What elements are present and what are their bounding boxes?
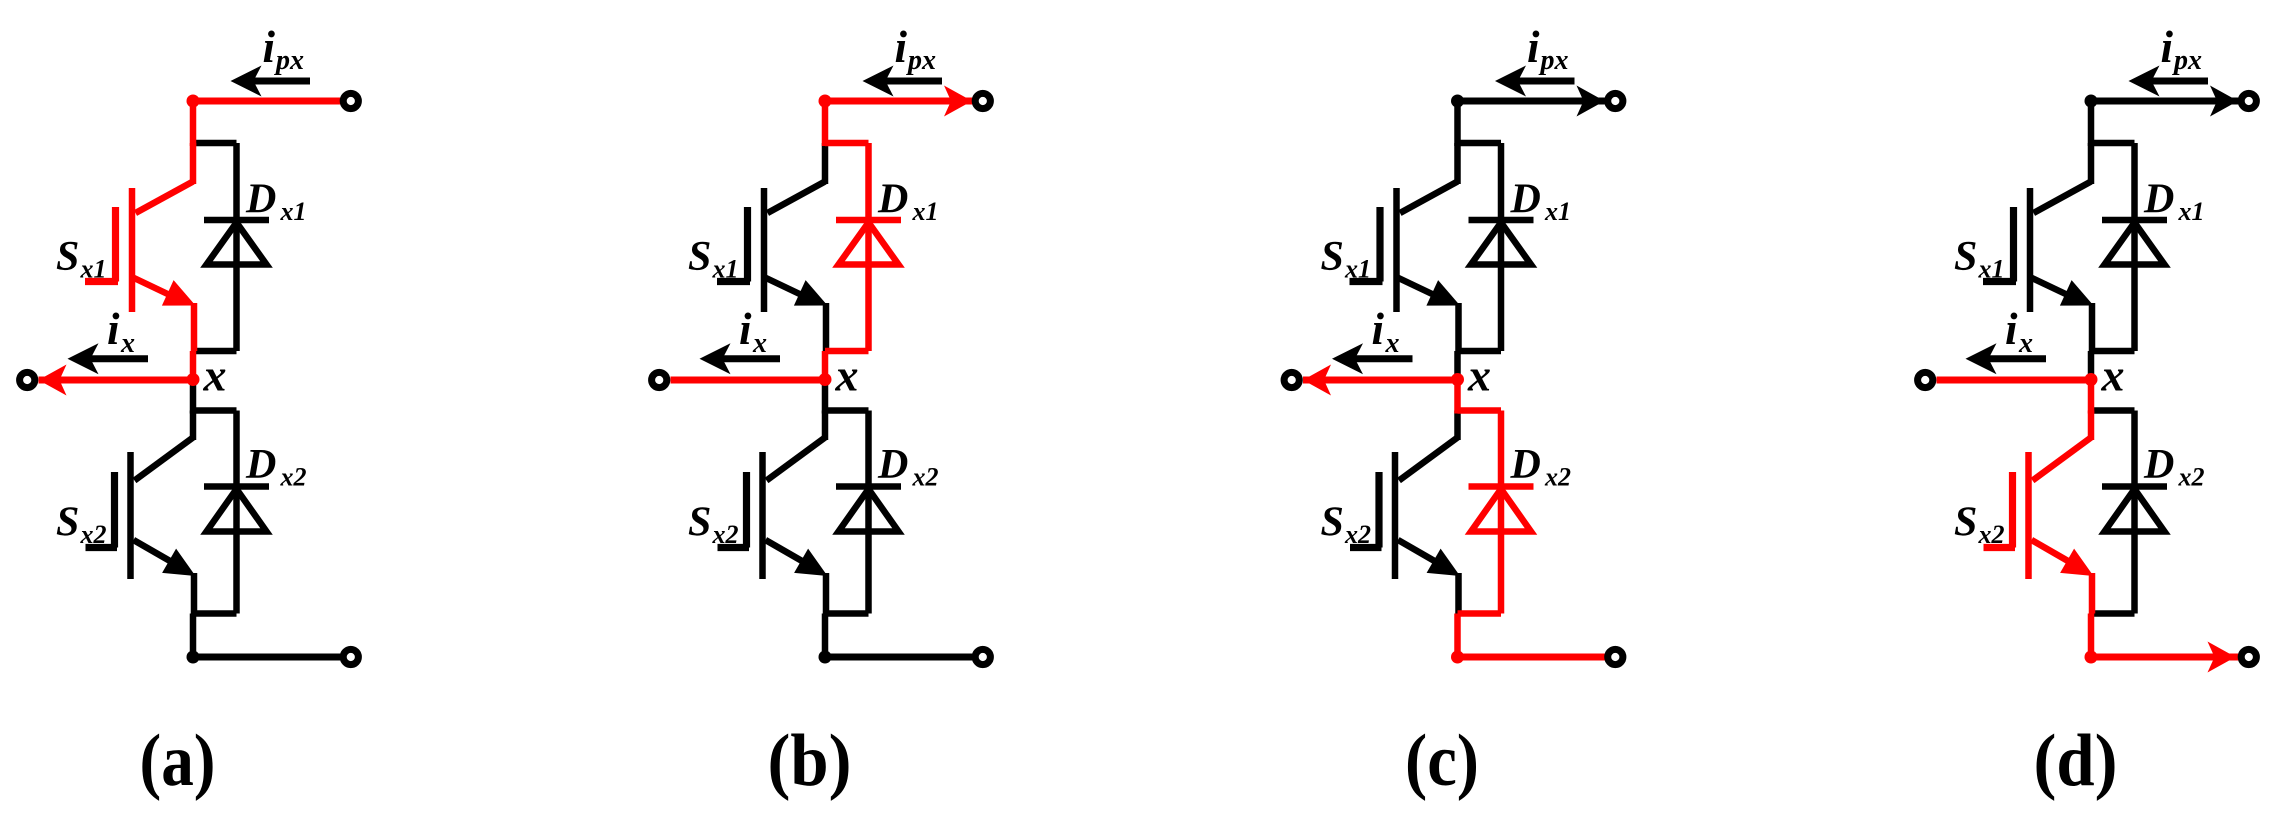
- svg-text:D: D: [2143, 442, 2174, 488]
- wire: emitter to D1 link: [1455, 303, 1462, 351]
- svg-text:x: x: [1385, 328, 1400, 359]
- svg-text:x: x: [752, 328, 767, 359]
- wire: to bottom junction: [2088, 614, 2095, 658]
- transistor S_x1: [136, 182, 194, 214]
- diode D_x1: [1498, 143, 1505, 351]
- wire: bottom output: [193, 654, 342, 661]
- junction: top rail: [2085, 95, 2098, 108]
- svg-text:(b): (b): [768, 720, 852, 802]
- wire: top output: [2091, 98, 2240, 105]
- wire: link to S2 collector: [190, 411, 197, 441]
- svg-text:i: i: [1527, 22, 1540, 72]
- arrowhead: current at top terminal: [2210, 86, 2238, 117]
- wire: rail top junction to diode top link: [190, 98, 197, 146]
- wire: D2 bottom link: [2091, 610, 2135, 617]
- svg-text:px: px: [1539, 45, 1569, 76]
- transistor S_x1: [768, 182, 826, 214]
- wire: D2 top link: [1458, 407, 1502, 414]
- wire: D1 top link: [1458, 140, 1502, 147]
- svg-text:(c): (c): [1405, 720, 1479, 802]
- svg-text:i: i: [2005, 304, 2018, 354]
- wire: bottom output: [825, 654, 974, 661]
- current arrow i_x: [90, 355, 148, 362]
- wire: D1 top link: [2091, 140, 2135, 147]
- svg-text:S: S: [1954, 500, 1977, 546]
- junction: bottom rail: [819, 651, 832, 664]
- terminal: phase x: [1284, 372, 1299, 387]
- wire: top output: [193, 98, 342, 105]
- transistor S_x2: [1399, 438, 1458, 481]
- diode D_x2: [233, 411, 240, 614]
- current arrow i_px: [884, 78, 942, 85]
- wire: S2 emitter to D2 link: [2089, 573, 2096, 614]
- arrowhead: current out at x terminal: [39, 365, 67, 396]
- wire: D2 top link: [193, 407, 237, 414]
- svg-text:D: D: [245, 442, 276, 488]
- svg-text:x1: x1: [912, 197, 939, 226]
- svg-text:(a): (a): [140, 720, 216, 802]
- junction: bottom rail: [1451, 651, 1464, 664]
- terminal: bottom (n rail): [343, 649, 358, 664]
- diode D_x1: [865, 143, 872, 351]
- arrowhead: current out at x terminal: [1303, 365, 1331, 396]
- wire: emitter to D1 link: [2089, 303, 2096, 351]
- half-bridge leg panel (c): [1284, 22, 1623, 802]
- svg-text:x2: x2: [1344, 520, 1371, 549]
- junction: bottom rail: [2085, 651, 2098, 664]
- wire: D2 top link: [825, 407, 869, 414]
- svg-text:D: D: [877, 177, 908, 223]
- wire: D2 bottom link: [825, 610, 869, 617]
- terminal: top (p rail): [1608, 93, 1623, 108]
- svg-text:i: i: [263, 22, 276, 72]
- wire: D1 bottom link: [825, 348, 869, 355]
- wire: link to S2 collector: [1454, 411, 1461, 441]
- wire: to bottom junction: [190, 614, 197, 658]
- terminal: bottom (n rail): [1608, 649, 1623, 664]
- svg-text:D: D: [877, 442, 908, 488]
- svg-text:x2: x2: [80, 520, 107, 549]
- svg-text:x1: x1: [80, 255, 107, 284]
- svg-text:S: S: [688, 234, 711, 280]
- diode D_x1: [2131, 143, 2138, 351]
- wire: rail top junction to diode top link: [822, 98, 829, 146]
- svg-text:x: x: [120, 328, 135, 359]
- wire: S2 emitter to D2 link: [1455, 573, 1462, 614]
- svg-text:x1: x1: [280, 197, 307, 226]
- terminal: top (p rail): [975, 93, 990, 108]
- current arrow i_x: [1355, 355, 1413, 362]
- wire: link to node x: [822, 351, 829, 380]
- node x junction: [819, 373, 832, 386]
- wire: D1 top link: [193, 140, 237, 147]
- terminal: phase x: [1918, 372, 1933, 387]
- svg-text:x1: x1: [2178, 197, 2205, 226]
- wire: D1 top link: [825, 140, 869, 147]
- wire: rail top junction to diode top link: [1454, 98, 1461, 146]
- diode D_x1: [233, 143, 240, 351]
- svg-text:px: px: [274, 45, 304, 76]
- wire: node x to D2 top link: [822, 380, 829, 414]
- terminal: phase x: [652, 372, 667, 387]
- svg-text:x1: x1: [1344, 255, 1371, 284]
- half-bridge leg panel (a): [20, 22, 359, 802]
- wire: S2 emitter to D2 link: [823, 573, 830, 614]
- svg-text:i: i: [739, 304, 752, 354]
- transistor S_x2: [767, 438, 826, 481]
- transistor S_x2: [2033, 438, 2092, 481]
- wire: D1 bottom link: [193, 348, 237, 355]
- wire: rail top junction to diode top link: [2088, 98, 2095, 146]
- svg-text:D: D: [1510, 442, 1541, 488]
- diode D_x2: [865, 411, 872, 614]
- svg-text:i: i: [2161, 22, 2174, 72]
- current arrow i_px: [2150, 78, 2208, 85]
- current arrow i_x: [722, 355, 780, 362]
- wire: link to node x: [1454, 351, 1461, 380]
- svg-text:x1: x1: [1544, 197, 1571, 226]
- wire: output x: [1937, 377, 2092, 384]
- wire: link to S2 collector: [822, 411, 829, 441]
- wire: bottom output: [1458, 654, 1607, 661]
- wire: rail to S collector: [2088, 143, 2095, 184]
- arrowhead: current at top terminal: [944, 86, 972, 117]
- svg-text:x1: x1: [1978, 255, 2005, 284]
- wire: output x: [39, 377, 194, 384]
- svg-text:x2: x2: [712, 520, 739, 549]
- wire: S2 emitter to D2 link: [191, 573, 198, 614]
- svg-text:x2: x2: [1978, 520, 2005, 549]
- svg-text:px: px: [906, 45, 936, 76]
- svg-text:x: x: [835, 350, 859, 401]
- wire: node x to D2 top link: [2088, 380, 2095, 414]
- svg-text:S: S: [688, 500, 711, 546]
- diode D_x2: [2131, 411, 2138, 614]
- junction: bottom rail: [187, 651, 200, 664]
- svg-text:D: D: [245, 177, 276, 223]
- wire: link to node x: [190, 351, 197, 380]
- svg-text:S: S: [1321, 234, 1344, 280]
- half-bridge leg panel (d): [1918, 22, 2257, 802]
- wire: D2 top link: [2091, 407, 2135, 414]
- wire: bottom output: [2091, 654, 2240, 661]
- arrowhead: current at bottom terminal: [2208, 642, 2236, 673]
- svg-text:D: D: [1510, 177, 1541, 223]
- wire: output x: [671, 377, 826, 384]
- node x junction: [2085, 373, 2098, 386]
- svg-text:x2: x2: [912, 463, 939, 492]
- svg-text:S: S: [1321, 500, 1344, 546]
- svg-text:x1: x1: [712, 255, 739, 284]
- current arrow i_px: [1517, 78, 1575, 85]
- current arrow i_x: [1988, 355, 2046, 362]
- terminal: bottom (n rail): [975, 649, 990, 664]
- terminal: bottom (n rail): [2241, 649, 2256, 664]
- svg-text:i: i: [1372, 304, 1385, 354]
- wire: output x: [1303, 377, 1458, 384]
- svg-text:D: D: [2143, 177, 2174, 223]
- svg-text:S: S: [1954, 234, 1977, 280]
- wire: rail to S collector: [190, 143, 197, 184]
- wire: D1 bottom link: [1458, 348, 1502, 355]
- diode D_x2: [1498, 411, 1505, 614]
- svg-text:x: x: [2101, 350, 2125, 401]
- wire: link to node x: [2088, 351, 2095, 380]
- svg-text:i: i: [895, 22, 908, 72]
- svg-text:x: x: [2018, 328, 2033, 359]
- wire: node x to D2 top link: [1454, 380, 1461, 414]
- wire: top output: [1458, 98, 1607, 105]
- wire: D1 bottom link: [2091, 348, 2135, 355]
- transistor S_x1: [1400, 182, 1458, 214]
- terminal: top (p rail): [2241, 93, 2256, 108]
- terminal: phase x: [20, 372, 35, 387]
- wire: to bottom junction: [822, 614, 829, 658]
- wire: D2 bottom link: [1458, 610, 1502, 617]
- svg-text:x2: x2: [2178, 463, 2205, 492]
- junction: top rail: [1451, 95, 1464, 108]
- wire: top output: [825, 98, 974, 105]
- svg-text:i: i: [107, 304, 120, 354]
- svg-text:S: S: [56, 500, 79, 546]
- node x junction: [1451, 373, 1464, 386]
- junction: top rail: [187, 95, 200, 108]
- wire: rail to S collector: [822, 143, 829, 184]
- svg-text:px: px: [2172, 45, 2202, 76]
- transistor S_x1: [2034, 182, 2092, 214]
- half-bridge leg panel (b): [652, 22, 991, 802]
- wire: emitter to D1 link: [191, 303, 198, 351]
- svg-text:x: x: [1467, 350, 1491, 401]
- wire: node x to D2 top link: [190, 380, 197, 414]
- junction: top rail: [819, 95, 832, 108]
- wire: emitter to D1 link: [823, 303, 830, 351]
- svg-text:x2: x2: [1544, 463, 1571, 492]
- wire: to bottom junction: [1454, 614, 1461, 658]
- arrowhead: current at top terminal: [1577, 86, 1605, 117]
- wire: link to S2 collector: [2088, 411, 2095, 441]
- node x junction: [187, 373, 200, 386]
- svg-text:S: S: [56, 234, 79, 280]
- wire: rail to S collector: [1454, 143, 1461, 184]
- svg-text:(d): (d): [2034, 720, 2118, 802]
- current arrow i_px: [252, 78, 310, 85]
- svg-text:x2: x2: [280, 463, 307, 492]
- transistor S_x2: [135, 438, 194, 481]
- terminal: top (p rail): [343, 93, 358, 108]
- wire: D2 bottom link: [193, 610, 237, 617]
- svg-text:x: x: [203, 350, 227, 401]
